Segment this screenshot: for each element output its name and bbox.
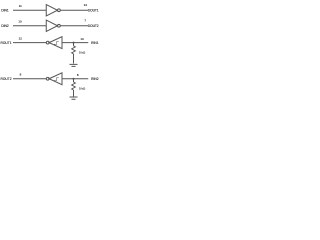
driver T2 triangle: [46, 20, 57, 31]
wire RIN2 input: [62, 77, 88, 81]
svg-text:10: 10: [18, 20, 22, 24]
svg-text:7: 7: [84, 19, 86, 23]
svg-text:ROUT2: ROUT2: [1, 77, 12, 81]
wire resistor lead top 2: [72, 79, 76, 82]
wire resistor lead top 1: [72, 43, 76, 46]
wire resistor lead bottom 2: [72, 90, 76, 97]
resistor 5k zigzag 1: [72, 46, 76, 54]
svg-text:ROUT1: ROUT1: [1, 41, 12, 45]
receiver R2 hysteresis symbol: [54, 78, 59, 81]
svg-text:11: 11: [19, 4, 22, 8]
driver T2 output bubble: [58, 24, 61, 27]
receiver R1 hysteresis symbol: [54, 41, 59, 44]
svg-text:DOUT1: DOUT1: [88, 8, 99, 12]
wire DOUT2 output: [60, 24, 88, 28]
svg-text:DIN1: DIN1: [1, 8, 9, 12]
receiver R2 triangle: [49, 73, 62, 85]
driver T1 output bubble: [58, 9, 61, 12]
wire DIN2 input: [13, 24, 46, 28]
wire resistor lead bottom 1: [72, 54, 76, 64]
svg-text:5 kΩ: 5 kΩ: [79, 87, 86, 91]
ground symbol 1 bar1: [70, 62, 78, 66]
receiver R2 output bubble: [46, 77, 49, 80]
resistor 5k zigzag 2: [72, 82, 76, 90]
svg-text:DOUT2: DOUT2: [88, 24, 99, 28]
svg-text:12: 12: [19, 36, 23, 40]
ground symbol 2 bar2: [72, 97, 76, 101]
receiver R1 triangle: [49, 37, 62, 49]
node junction RIN2: [72, 78, 74, 80]
svg-text:8: 8: [77, 73, 79, 77]
driver T1 triangle: [46, 5, 57, 16]
node junction RIN1: [72, 42, 74, 44]
wire ROUT1 output: [13, 41, 46, 45]
svg-text:9: 9: [20, 73, 22, 77]
wire RIN1 input: [62, 41, 88, 45]
wire DIN1 input: [13, 8, 46, 12]
ground symbol 2 bar1: [70, 95, 78, 99]
svg-text:DIN2: DIN2: [1, 24, 9, 28]
svg-text:13: 13: [80, 37, 84, 41]
wire ROUT2 output: [13, 77, 46, 81]
svg-text:14: 14: [84, 3, 88, 7]
svg-text:5 kΩ: 5 kΩ: [79, 50, 86, 54]
ground symbol 1 bar2: [72, 64, 76, 68]
receiver R1 output bubble: [46, 41, 49, 44]
wire DOUT1 output: [60, 8, 88, 12]
svg-text:RIN2: RIN2: [91, 77, 99, 81]
svg-text:RIN1: RIN1: [91, 41, 99, 45]
